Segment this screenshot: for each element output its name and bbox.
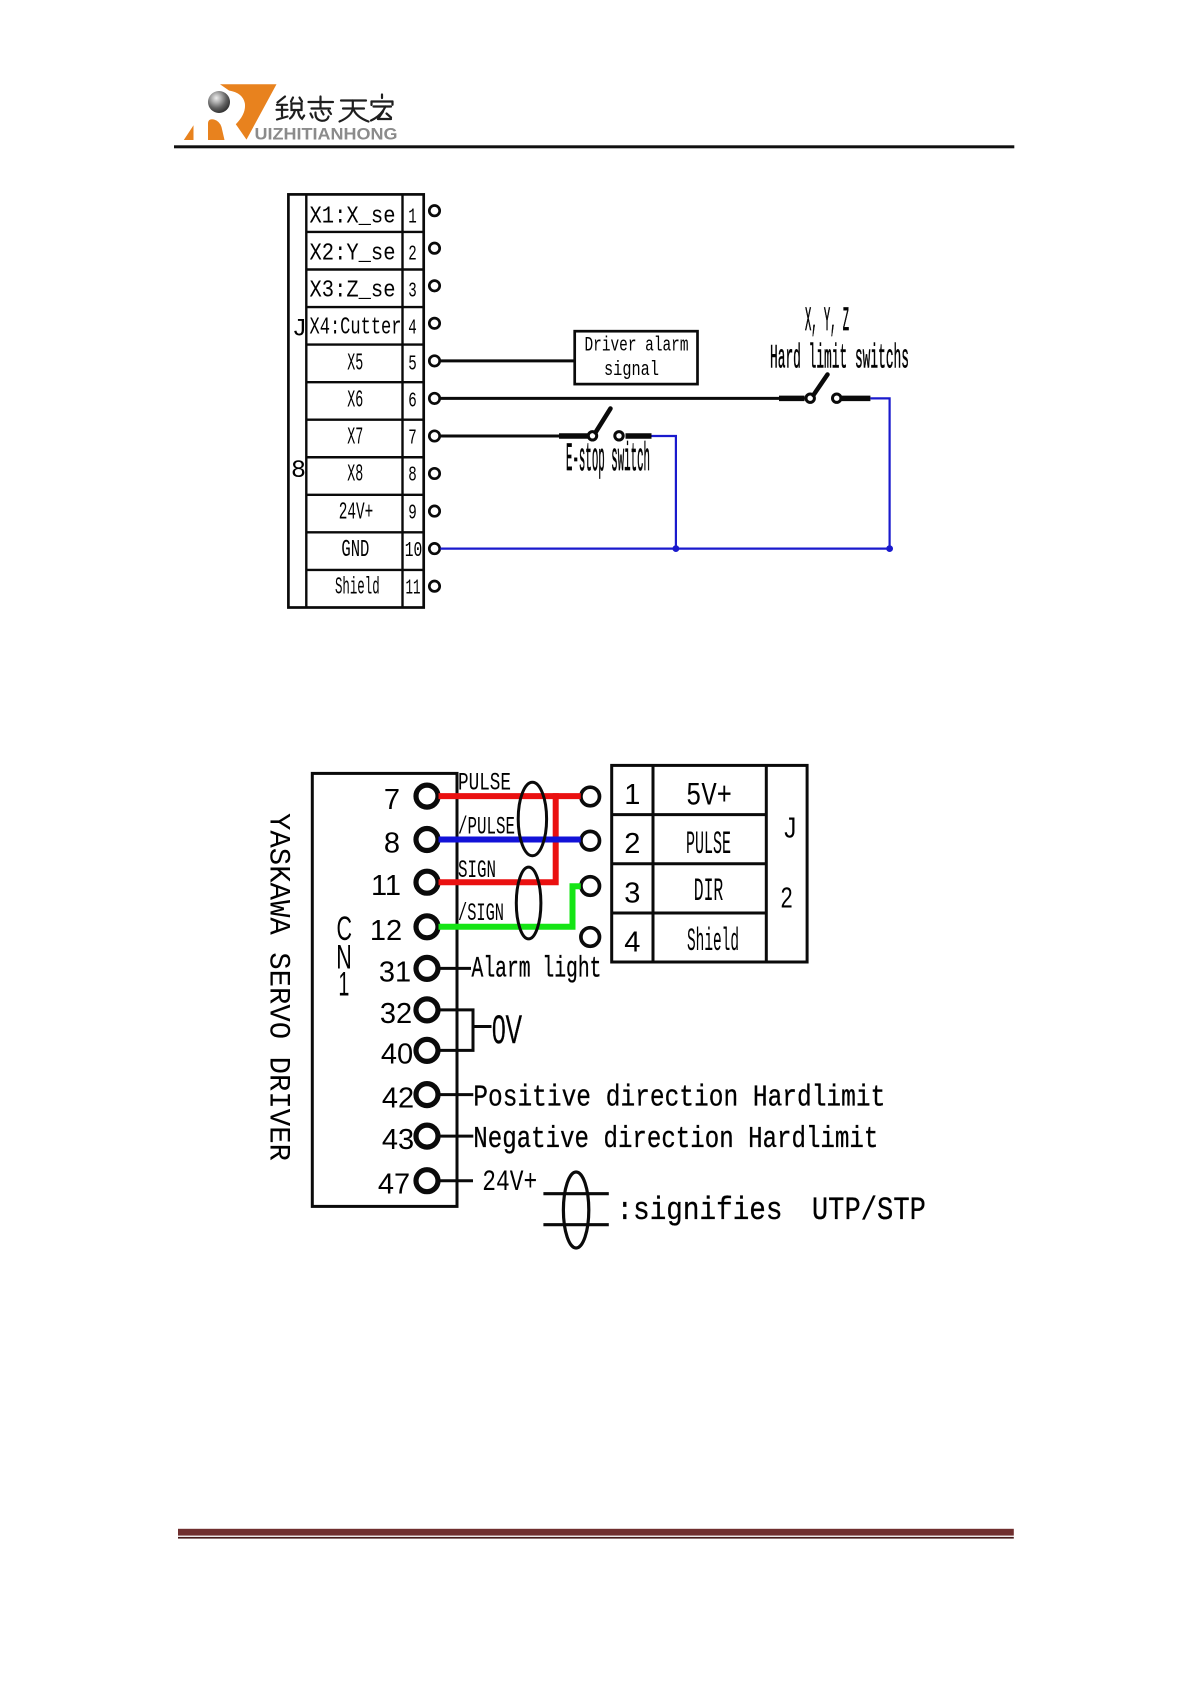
svg-text:8: 8 [291,456,306,485]
svg-text:/PULSE: /PULSE [458,813,515,842]
svg-text:0V: 0V [492,1008,522,1052]
svg-text:Negative direction Hardlimit: Negative direction Hardlimit [473,1122,878,1157]
svg-text:1: 1 [338,966,349,1004]
svg-text:3: 3 [624,877,640,909]
svg-text:DIR: DIR [694,873,724,910]
svg-text:42: 42 [382,1083,414,1115]
svg-text:E-stop switch: E-stop switch [566,438,650,483]
svg-text:Alarm light: Alarm light [472,953,602,987]
svg-text:10: 10 [405,540,423,563]
svg-text:X1:X_se: X1:X_se [310,204,396,231]
svg-text:SIGN: SIGN [458,856,496,885]
svg-text:2: 2 [781,883,793,915]
svg-text:3: 3 [408,281,417,304]
svg-text:43: 43 [382,1124,414,1156]
svg-text:UIZHITIANHONG: UIZHITIANHONG [255,126,398,144]
svg-text:1: 1 [624,779,640,811]
svg-text:X8: X8 [347,462,363,489]
svg-text:11: 11 [371,870,401,902]
svg-text:X2:Y_se: X2:Y_se [310,241,396,268]
svg-text:24V+: 24V+ [482,1166,537,1200]
svg-text:11: 11 [406,578,421,601]
svg-text:8: 8 [384,828,400,860]
svg-text:32: 32 [380,998,412,1030]
svg-text:24V+: 24V+ [339,500,374,527]
svg-text:7: 7 [408,428,417,451]
svg-text:GND: GND [341,537,369,564]
svg-text:X3:Z_se: X3:Z_se [310,278,396,305]
svg-text:YASKAWA SERVO DRIVER: YASKAWA SERVO DRIVER [261,813,295,1161]
svg-text:PULSE: PULSE [686,826,731,863]
svg-text:signal: signal [604,359,659,382]
svg-text:Driver alarm: Driver alarm [585,335,689,358]
svg-text:Shield: Shield [335,575,380,602]
svg-text:5V+: 5V+ [686,778,732,815]
svg-text:/SIGN: /SIGN [458,899,504,928]
svg-text:UTP/STP: UTP/STP [812,1192,926,1229]
svg-text:Shield: Shield [687,923,739,960]
svg-text:4: 4 [624,927,640,959]
svg-text:2: 2 [408,244,417,267]
svg-text:4: 4 [408,318,417,341]
svg-text:6: 6 [408,390,417,413]
svg-text:7: 7 [384,784,400,816]
svg-text:9: 9 [408,503,417,526]
svg-text:PULSE: PULSE [458,769,511,798]
svg-text:X, Y, Z: X, Y, Z [805,303,849,341]
svg-text:J: J [784,813,796,845]
svg-text:1: 1 [408,207,417,230]
svg-text:8: 8 [408,465,417,488]
svg-text:J: J [292,315,307,344]
svg-text:12: 12 [370,915,402,947]
svg-text:31: 31 [379,956,411,988]
svg-text:5: 5 [408,353,417,376]
svg-text:Hard limit switchs: Hard limit switchs [770,341,909,379]
svg-text::signifies: :signifies [617,1192,783,1229]
svg-text:X5: X5 [347,350,363,377]
svg-text:2: 2 [624,828,640,860]
svg-text:47: 47 [378,1169,410,1201]
svg-text:40: 40 [381,1038,413,1070]
svg-text:X6: X6 [347,387,363,414]
svg-text:X4:Cutter: X4:Cutter [310,315,402,342]
svg-text:X7: X7 [347,425,363,452]
svg-text:Positive direction Hardlimit: Positive direction Hardlimit [473,1081,885,1116]
